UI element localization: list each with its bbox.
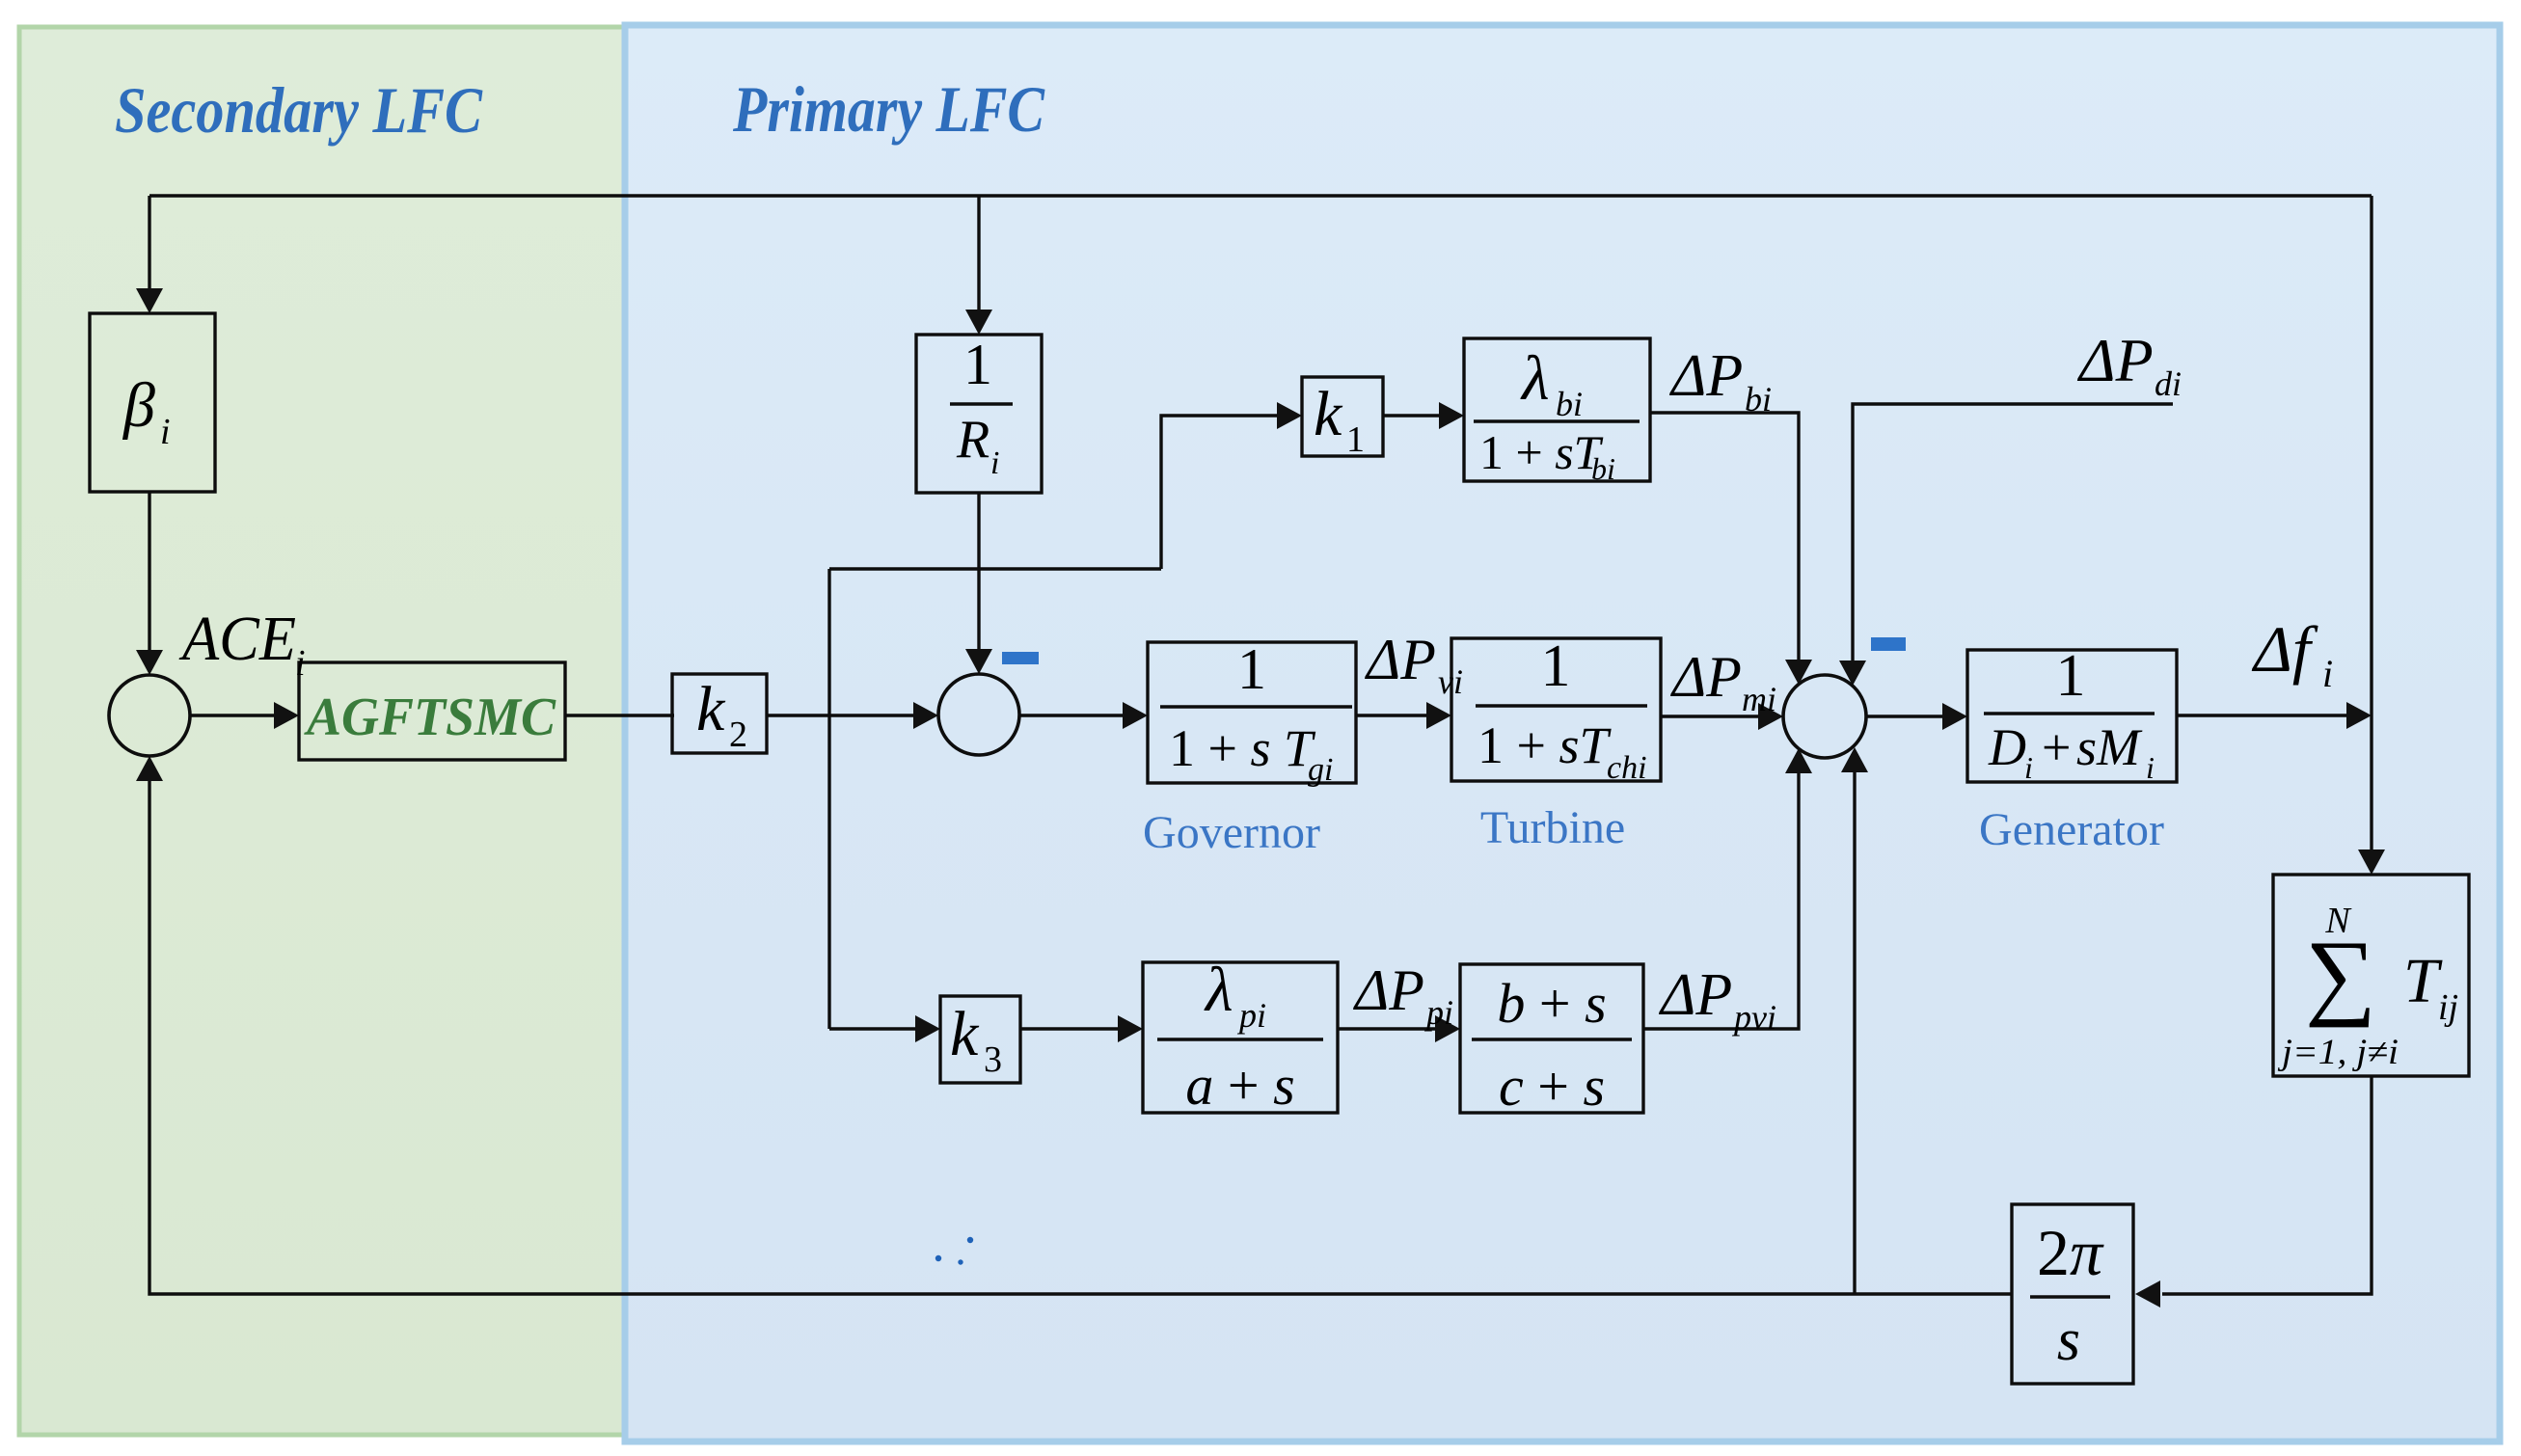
svg-text:ij: ij (2438, 987, 2458, 1028)
svg-text:b + s: b + s (1497, 972, 1606, 1035)
svg-text:i: i (295, 643, 306, 684)
svg-text:k: k (1314, 379, 1343, 449)
svg-text:pi: pi (1423, 993, 1453, 1032)
svg-text:T: T (2403, 946, 2443, 1016)
svg-text:1: 1 (963, 333, 992, 396)
svg-text:i: i (2322, 652, 2333, 695)
svg-text:c + s: c + s (1499, 1055, 1605, 1118)
svg-text:Generator: Generator (1979, 804, 2164, 855)
svg-text:D: D (1988, 718, 2026, 776)
svg-text:vi: vi (1438, 662, 1463, 701)
svg-text:+: + (2042, 718, 2071, 776)
svg-text:2π: 2π (2037, 1216, 2104, 1289)
svg-text:Secondary LFC: Secondary LFC (115, 73, 483, 147)
svg-text:ΔP: ΔP (1658, 962, 1732, 1028)
svg-text:mi: mi (1742, 680, 1776, 718)
svg-text:1 + s T: 1 + s T (1169, 719, 1316, 777)
svg-text:bi: bi (1591, 451, 1615, 486)
svg-text:1: 1 (1541, 634, 1571, 699)
svg-text:chi: chi (1607, 750, 1647, 786)
svg-text:Δf: Δf (2251, 612, 2318, 686)
svg-text:a + s: a + s (1185, 1054, 1294, 1117)
svg-text:R: R (956, 410, 989, 470)
svg-text:ACE: ACE (178, 604, 296, 674)
svg-text:ΔP: ΔP (1670, 645, 1742, 709)
svg-text:s: s (2057, 1308, 2080, 1373)
svg-text:λ: λ (1520, 343, 1550, 414)
svg-text:i: i (2146, 750, 2155, 785)
svg-text:j=1, j≠i: j=1, j≠i (2278, 1033, 2399, 1072)
svg-text:sM: sM (2076, 718, 2143, 776)
svg-text:bi: bi (1745, 380, 1772, 418)
svg-text:di: di (2155, 364, 2182, 403)
svg-text:pvi: pvi (1731, 998, 1776, 1037)
svg-text:bi: bi (1556, 385, 1583, 423)
svg-text:3: 3 (984, 1039, 1002, 1080)
svg-text:pi: pi (1236, 996, 1266, 1035)
svg-text:Turbine: Turbine (1480, 802, 1625, 853)
svg-text:1: 1 (1237, 637, 1266, 701)
svg-text:k: k (696, 674, 726, 744)
svg-text:k: k (950, 999, 980, 1069)
svg-text:Primary LFC: Primary LFC (732, 72, 1044, 146)
svg-text:ΔP: ΔP (1353, 958, 1424, 1022)
svg-text:β: β (122, 370, 155, 441)
svg-text:∑: ∑ (2305, 921, 2376, 1028)
svg-text:1: 1 (1346, 419, 1365, 460)
svg-text:1 + sT: 1 + sT (1477, 716, 1612, 774)
svg-text:2: 2 (729, 715, 747, 755)
svg-text:gi: gi (1308, 752, 1333, 788)
svg-text:1: 1 (2056, 643, 2086, 709)
svg-text:i: i (160, 412, 171, 452)
svg-text:i: i (990, 445, 999, 481)
svg-text:1 + sT: 1 + sT (1479, 425, 1604, 479)
svg-text:ΔP: ΔP (2076, 326, 2154, 394)
svg-text:λ: λ (1204, 955, 1233, 1025)
svg-text:i: i (2024, 750, 2033, 785)
svg-text:ΔP: ΔP (1365, 628, 1436, 691)
svg-text:AGFTSMC: AGFTSMC (304, 688, 556, 747)
svg-text:Governor: Governor (1143, 807, 1320, 858)
svg-text:ΔP: ΔP (1668, 343, 1743, 409)
